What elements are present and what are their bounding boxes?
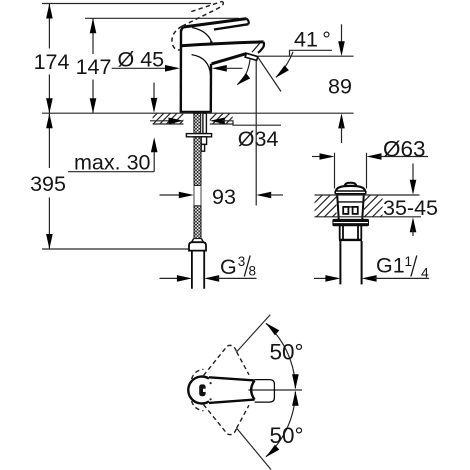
raised lever dashed lower edge: [182, 9, 218, 27]
arrow 93 right: [256, 192, 271, 199]
lever front bevel: [181, 27, 183, 31]
G38 left arrow: [177, 275, 192, 282]
41deg label line: [290, 50, 333, 56]
hose tube: [192, 251, 204, 289]
mounting nut step1: [201, 137, 206, 145]
arrow 89 bottom: [338, 113, 345, 128]
drain lock ring: [332, 219, 369, 226]
flex hose plain section: [194, 185, 201, 205]
arrow D34 left: [169, 118, 184, 125]
dimension line 395: [48, 113, 50, 249]
handle separator arc: [251, 380, 254, 399]
svg-text:41 °: 41 °: [294, 28, 331, 52]
35-45 top arrow line: [412, 164, 414, 184]
svg-text:93: 93: [212, 185, 236, 209]
svg-text:4: 4: [421, 264, 429, 280]
handle dot upper: [210, 382, 212, 384]
lever underside: [214, 24, 249, 29]
swivel arc arrowhead: [237, 73, 251, 85]
drain window bar: [343, 206, 358, 208]
drain tailpipe: [340, 241, 361, 284]
lower arc arrowhead top: [292, 391, 299, 406]
spout outlet extension line: [255, 61, 257, 206]
handle tip outline: [255, 380, 275, 403]
svg-text:35-45: 35-45: [383, 196, 438, 220]
G38 right arrow: [204, 275, 219, 282]
max30 upper arrowhead: [151, 98, 158, 113]
spout beak inner line: [252, 43, 260, 52]
41deg flow diagonal: [258, 57, 281, 92]
drain cap dome: [336, 186, 365, 191]
handle dot lower: [210, 398, 212, 400]
drain hex section: [340, 226, 362, 239]
body right edge lower: [210, 64, 213, 113]
spout beak: [258, 42, 264, 53]
svg-text:G: G: [220, 255, 237, 279]
D63 right tail: [379, 156, 429, 158]
svg-text:Ø34: Ø34: [238, 127, 279, 151]
dashed handle lower edge1: [204, 405, 228, 435]
D34 leader: [222, 121, 281, 125]
lower 50deg line: [237, 428, 272, 470]
dimension line 147: [92, 18, 94, 113]
dimension line D45 right tail: [224, 67, 243, 69]
aerator outlet reference line: [258, 55, 354, 57]
lower 50deg arc: [266, 392, 296, 457]
threaded shank: [194, 113, 201, 133]
arrow 174 bottom: [46, 98, 53, 113]
arrow 395 bottom: [46, 234, 53, 249]
35-45 top arrowhead: [410, 180, 417, 195]
svg-text:G1: G1: [376, 253, 405, 277]
drain window left: [343, 207, 348, 214]
raised lever dashed tip cap: [218, 1, 224, 8]
dashed handle lower tip: [227, 428, 236, 434]
svg-text:147: 147: [76, 55, 112, 79]
max30 arrow line: [153, 149, 155, 172]
flex hose upper braid: [194, 137, 201, 186]
dashed handle upper tip: [227, 345, 236, 351]
dashed handle lower edge2: [237, 405, 249, 428]
hose end collar: [192, 239, 204, 243]
drain neck below deck: [339, 217, 363, 220]
dimension line 174: [48, 4, 50, 114]
raised lever dashed upper edge: [191, 1, 222, 11]
deck bottom line left: [153, 123, 184, 125]
arrow 93 left: [179, 192, 194, 199]
lever rear cap: [247, 19, 249, 25]
41deg arc arrowhead: [276, 65, 289, 77]
G38 right tail: [216, 277, 256, 279]
body left edge: [180, 30, 183, 113]
arrow 89 top: [338, 41, 345, 56]
svg-text:174: 174: [34, 50, 70, 74]
dimension 89 bottom arrow line: [341, 125, 343, 143]
svg-text:50°: 50°: [270, 423, 304, 448]
upper arc arrowhead bottom: [292, 374, 299, 389]
D63 right arrow: [367, 153, 382, 160]
D63 left line: [312, 156, 323, 158]
G114 right arrow: [362, 275, 377, 282]
drain deck top line: [315, 194, 420, 196]
bottom view centerline: [248, 389, 302, 391]
dashed handle lower cap: [192, 369, 204, 379]
arrow 147 top: [90, 18, 97, 33]
arrow D45 right: [212, 65, 227, 72]
svg-text:50°: 50°: [270, 339, 304, 364]
41deg angle arc: [276, 52, 293, 78]
arrow D45 left: [165, 65, 180, 72]
dashed handle upper cap: [192, 401, 204, 411]
mounting tube: [203, 113, 207, 133]
upper 50deg line: [237, 315, 271, 352]
aerator face: [245, 53, 258, 60]
drain deck hatching: [300, 195, 411, 218]
max30 upper arrow line: [153, 83, 155, 101]
lever top edge: [184, 19, 247, 27]
body base line: [181, 111, 212, 113]
arrow 147 bottom: [90, 98, 97, 113]
hose end reference line: [42, 248, 189, 250]
svg-text:Ø63: Ø63: [383, 137, 426, 162]
body right edge upper: [210, 41, 212, 44]
drain hex bottom: [339, 239, 362, 241]
D63 extension lines: [335, 153, 367, 189]
upper arc arrowhead top: [266, 323, 279, 335]
svg-text:395: 395: [30, 172, 66, 196]
upper 50deg arc: [266, 323, 296, 388]
raised lever dashed left cap: [172, 26, 182, 50]
mounting washer: [186, 134, 211, 137]
dimension 93 right tail: [268, 194, 283, 196]
drain body line: [337, 201, 363, 203]
arrow D34 right: [210, 118, 225, 125]
dashed handle upper edge1: [204, 346, 228, 376]
G114 right tail: [374, 277, 429, 279]
flex hose lower braid: [194, 206, 201, 239]
dimension 89 top arrow line: [341, 24, 343, 44]
spout swivel arc: [238, 60, 251, 85]
mounting nut step2: [201, 144, 204, 151]
35-45 bottom arrowhead: [410, 217, 417, 232]
svg-text:8: 8: [249, 264, 257, 279]
deck hatching: [146, 113, 243, 125]
drain deck bottom line: [315, 216, 422, 218]
dimension 93 left line: [160, 194, 181, 196]
svg-text:max. 30: max. 30: [74, 151, 151, 175]
spout bottom edge: [212, 54, 247, 64]
deck bottom line right: [210, 123, 233, 125]
D63 left arrow: [320, 153, 335, 160]
max30 label underline: [68, 171, 154, 173]
dimension line D34 left: [150, 120, 172, 122]
reference line 147 level: [85, 17, 239, 19]
arrow 174 top: [46, 4, 53, 19]
dashed handle upper edge2: [237, 352, 249, 375]
drain cap rim: [335, 191, 366, 194]
handle cap arc: [188, 377, 209, 404]
drain body sides: [337, 195, 364, 217]
G114 left arrow: [325, 275, 340, 282]
svg-text:3: 3: [238, 254, 246, 269]
G114 left line: [314, 277, 328, 279]
drain cap knob: [345, 183, 357, 186]
top reference line (lever raised height): [42, 3, 211, 5]
35-45 bottom arrow line: [412, 229, 414, 236]
max30 arrowhead: [151, 137, 158, 152]
svg-text:89: 89: [328, 74, 352, 98]
G38 left line: [160, 277, 180, 279]
hose end cap: [189, 242, 206, 250]
drain window right: [353, 207, 358, 214]
dimension line D45 left: [112, 67, 169, 69]
arrow 395 top: [46, 113, 53, 128]
handle bottom edge: [209, 400, 255, 403]
lever pivot skirt: [192, 28, 211, 42]
lower arc arrowhead bottom: [266, 445, 279, 457]
spout top edge: [181, 42, 263, 46]
svg-text:1: 1: [405, 254, 413, 269]
handle badge: [199, 384, 205, 396]
body-spout junction arc: [192, 55, 211, 76]
deck top line: [42, 112, 354, 114]
handle top edge: [209, 377, 255, 380]
